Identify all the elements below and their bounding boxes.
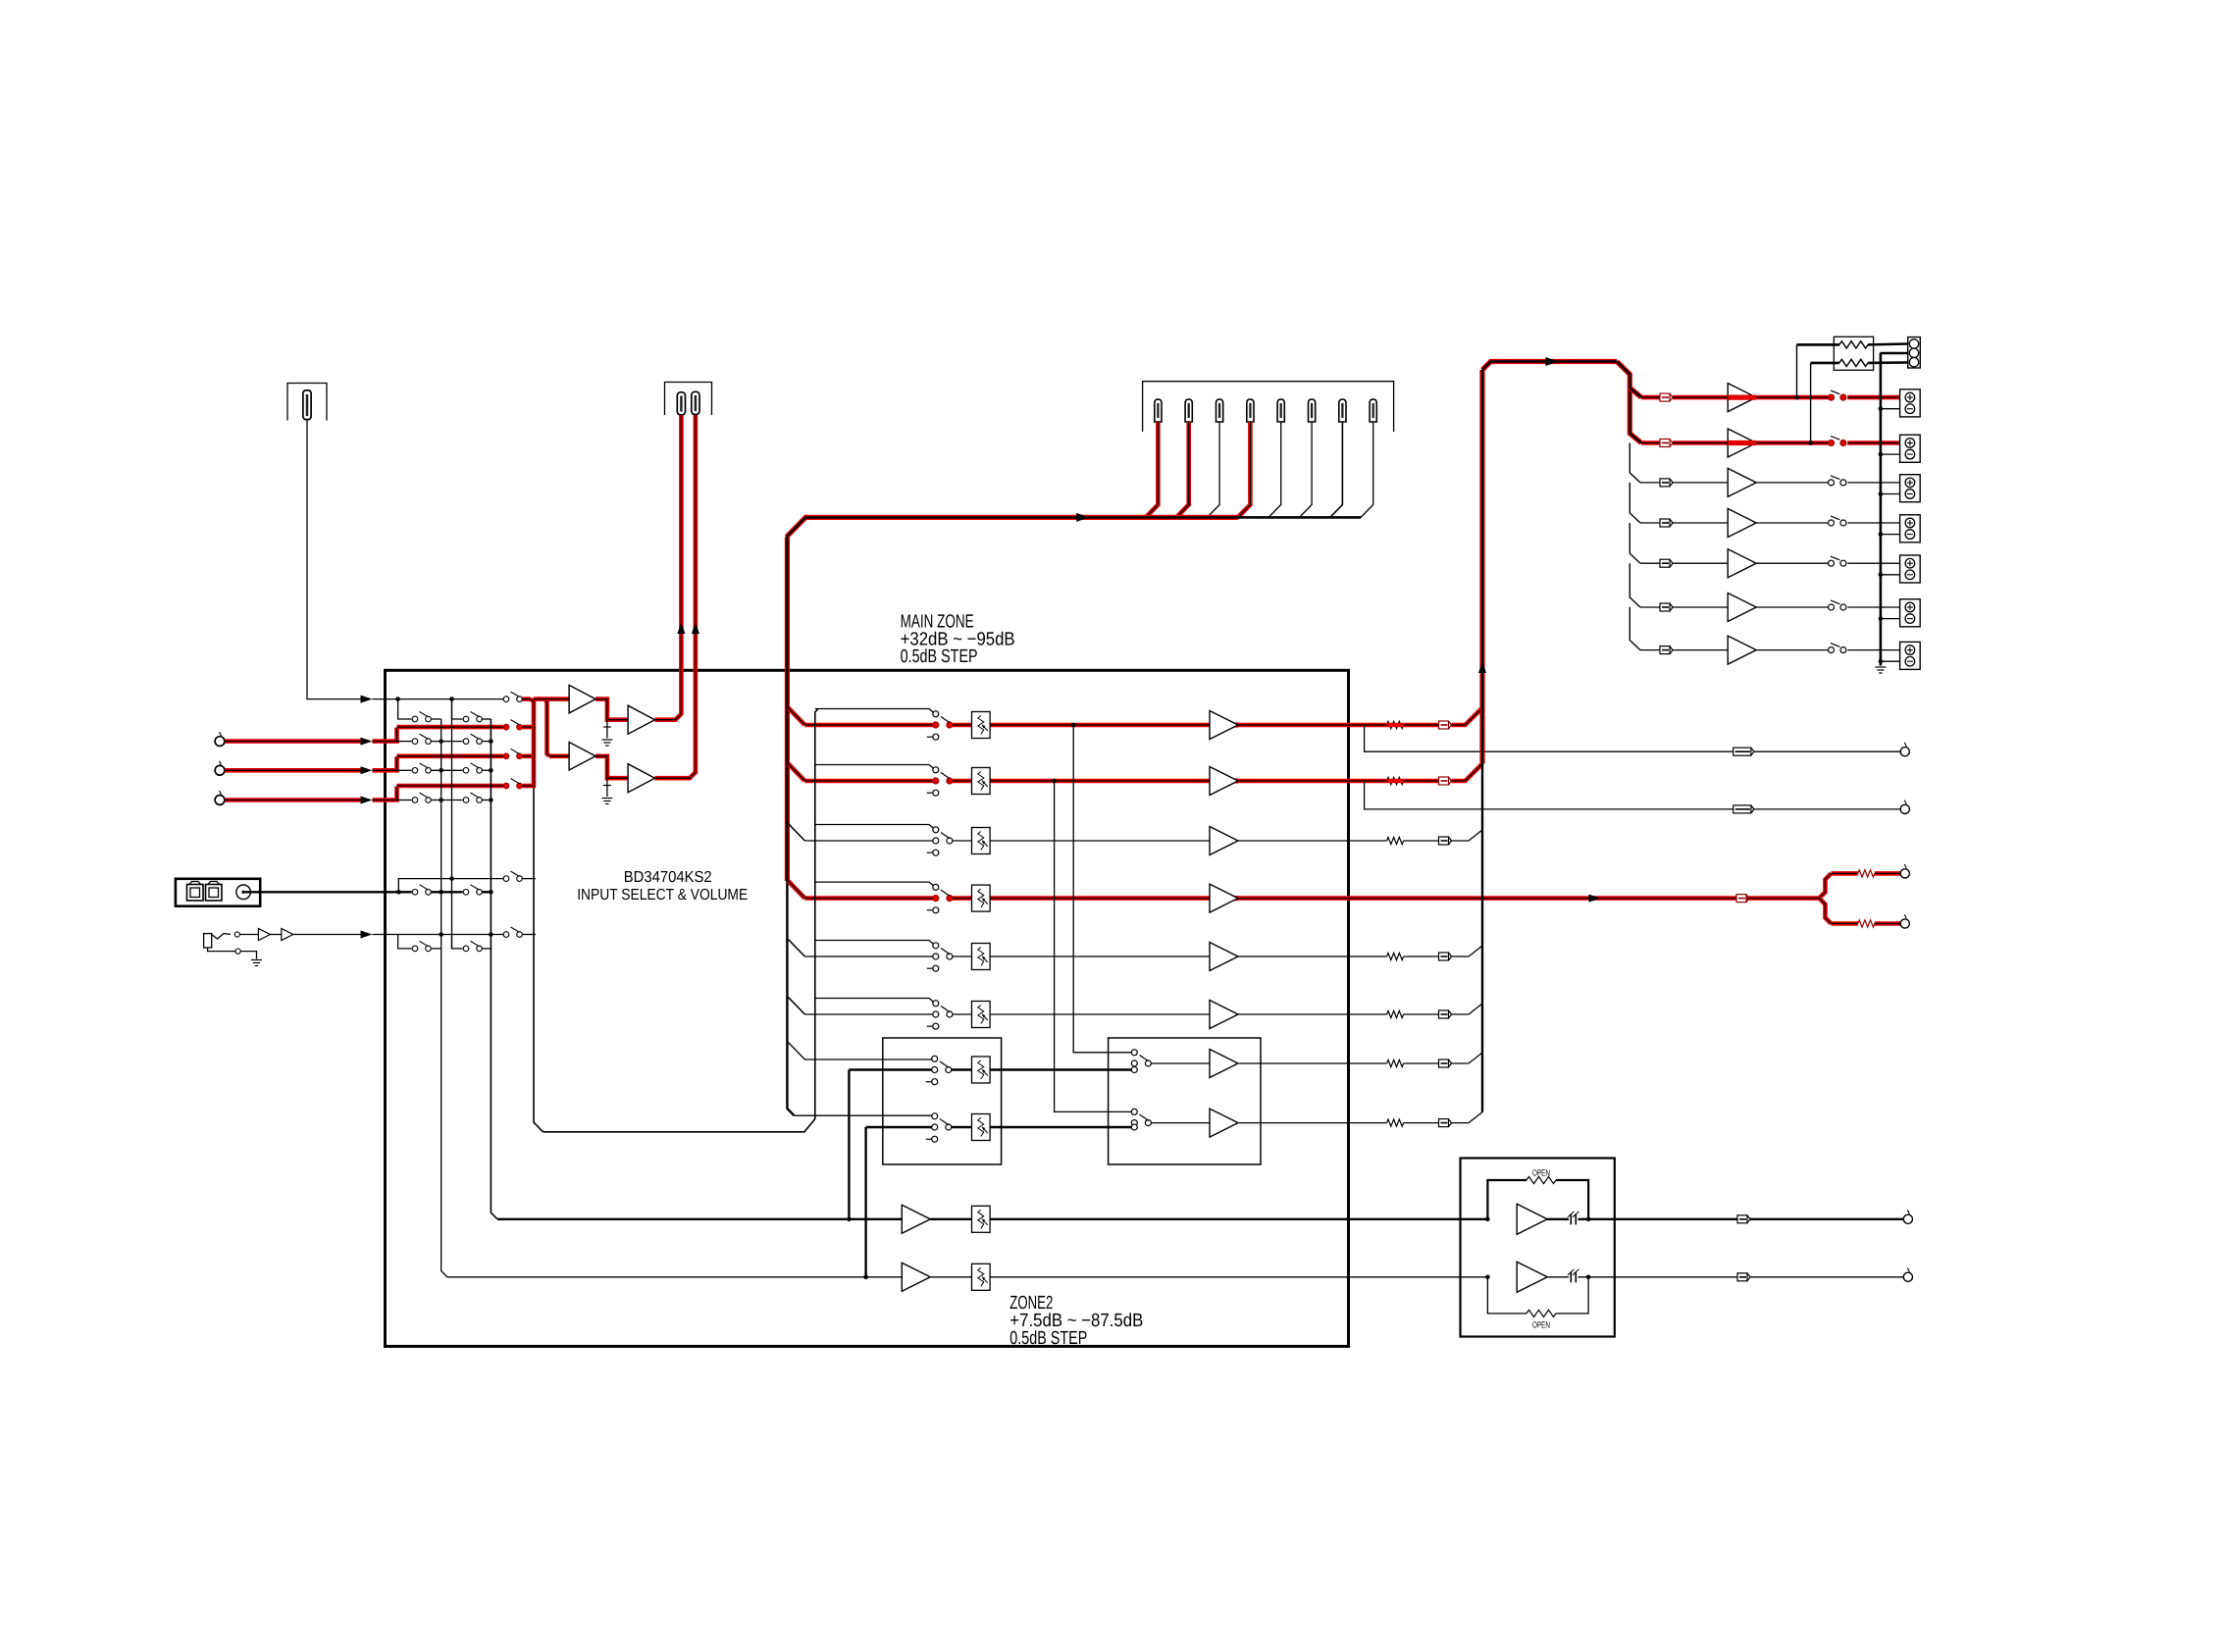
col3 output bus to chip bottom — [534, 786, 543, 1132]
connector pin flag dsp ch5 — [1277, 399, 1284, 422]
node row FR zone tap — [1052, 779, 1057, 784]
wire row SL switch to volume box — [953, 955, 972, 957]
wire bus B to buffer R — [549, 753, 569, 758]
speaker terminal 5 — [1900, 555, 1921, 583]
wire spk branch 6 d — [1847, 606, 1899, 608]
wire row FL volume to amp — [990, 723, 1210, 728]
net flag preout FR — [1733, 805, 1754, 813]
wire row SL amp to box edge — [1238, 955, 1349, 957]
SW2 output jack — [1900, 914, 1909, 928]
wire spk branch 1 d — [1847, 395, 1899, 400]
bus A red segment — [531, 699, 534, 786]
switch rca 3 col1 — [412, 793, 431, 802]
node gnd bus 6 — [1879, 616, 1884, 621]
op-amp speaker 6 — [1728, 594, 1756, 622]
op-amp zone2 Z2R — [1210, 1109, 1238, 1137]
op-amp speaker 3 — [1728, 468, 1756, 496]
node gnd bus 5 — [1879, 573, 1884, 578]
switch rca 1 col1 — [412, 734, 431, 744]
node rca 1 bus1 — [439, 739, 443, 744]
node gnd bus 2 — [1879, 452, 1884, 457]
node res bot tap — [1808, 440, 1813, 445]
input row tuner drop col2 — [452, 699, 463, 719]
wire Z2R out amp to cap — [1547, 1276, 1569, 1278]
wire SW2 to jack — [1875, 921, 1900, 926]
wire row FR volume to amp — [990, 779, 1210, 784]
top bus wire dsp to volume trunk (red part) — [787, 517, 1238, 537]
speaker terminal 1 — [1900, 389, 1921, 417]
wire dsp ch2 to volume bus — [1176, 422, 1189, 518]
node tuner drop1 — [395, 697, 400, 701]
optical input icon — [187, 882, 204, 902]
wire row SW switch to volume box — [953, 896, 972, 901]
connector pin flag dsp ch6 — [1309, 399, 1316, 422]
net flag Z2R out — [1737, 1273, 1750, 1281]
net flag SR — [1439, 1010, 1452, 1018]
wire row C switch to volume box — [953, 840, 972, 842]
direct path bus vertical — [543, 709, 819, 1132]
wire dsp ch1 to volume bus — [1145, 422, 1158, 518]
wire zone2 out Z2L to amp — [1151, 1062, 1210, 1064]
rca input jack 3 — [215, 791, 225, 804]
headphone jack — [204, 934, 212, 948]
wire phones drop col1 — [398, 935, 412, 949]
svg-text:OPEN: OPEN — [1532, 1168, 1550, 1178]
wire Z2L out cap out — [1578, 1218, 1615, 1220]
volume attenuator row FL — [972, 712, 991, 739]
wire spk branch 5 a — [1640, 562, 1660, 564]
switch phones col2 — [463, 941, 482, 951]
arrow on top bus — [1076, 513, 1089, 522]
switch rca 2 col2 — [463, 763, 482, 773]
wire rca 1 col3 to bus A — [523, 725, 537, 730]
wire row FL through amp — [1210, 722, 1238, 727]
switch zone2 Z2L — [926, 1056, 952, 1084]
volume attenuator row FR — [972, 768, 991, 795]
wire zone2 L down — [848, 1070, 850, 1219]
wire row SBR to resistor — [1261, 1122, 1387, 1124]
wire flag C to trunk — [1452, 830, 1483, 841]
wire FR to zone2 select — [1055, 781, 1131, 1111]
wire resistor to flag C — [1404, 840, 1439, 842]
net flag C — [1439, 837, 1452, 845]
wire terminal minus 4 — [1881, 534, 1900, 536]
svg-text:BD34704KS2: BD34704KS2 — [624, 869, 712, 886]
op-amp buffer L2 — [628, 705, 654, 734]
wire dsp ch4 to volume bus — [1237, 422, 1250, 518]
node module raised — [449, 876, 454, 881]
red through amp 2 — [1728, 440, 1756, 445]
wire row SL trunk to switch — [804, 955, 932, 957]
volume attenuator row SW — [972, 885, 991, 911]
switch phones col3 — [503, 927, 522, 937]
connector pin flag dsp ch4 — [1247, 399, 1254, 422]
wire terminal minus 1 — [1881, 408, 1900, 410]
resistor row C — [1387, 837, 1404, 844]
wire res top left — [1797, 343, 1840, 346]
wire row C trunk to switch — [804, 840, 932, 842]
wire spk trunk segment 3 — [1630, 483, 1640, 523]
wire zone2 Z2L out row to amp — [497, 1218, 902, 1220]
resistor OPEN Z2L out — [1526, 1176, 1556, 1183]
connector pin flag AIN L — [677, 392, 685, 415]
wire dsp ch6 to volume bus — [1299, 422, 1312, 518]
wire spk branch 2 b — [1673, 440, 1728, 445]
wire spk branch 1 a — [1641, 395, 1660, 400]
wire row SL volume to amp — [990, 955, 1210, 957]
wire flag SBR to trunk — [1452, 1112, 1483, 1123]
op-amp speaker 7 — [1728, 636, 1756, 664]
switch zone2 out Z2L — [1131, 1050, 1151, 1073]
resistor row SBR — [1387, 1119, 1404, 1126]
zone2 output jack Z2L out — [1903, 1211, 1912, 1224]
switch rca 1 col3 — [503, 720, 522, 730]
wire dsp ch7 to volume bus — [1329, 422, 1342, 518]
wire spk trunk segment 2 — [1630, 443, 1640, 483]
node phones bus1 — [439, 932, 443, 937]
wire flag SR to trunk — [1452, 1004, 1483, 1014]
wire SW split — [1820, 873, 1832, 898]
wire SW preout line — [1349, 896, 1822, 901]
net flag spk 2 — [1660, 439, 1673, 447]
net flag spk 6 — [1660, 603, 1673, 611]
preout jack FR — [1900, 800, 1909, 814]
wire Z2L out vol to open box — [990, 1218, 1487, 1220]
wire term3 mid to gnd bus — [1881, 352, 1908, 355]
resistor OPEN Z2R out — [1526, 1310, 1556, 1316]
wire rca 1 to box — [225, 739, 361, 744]
red overlay resistor FR — [1387, 779, 1404, 784]
switch zone2 out Z2R — [1131, 1109, 1151, 1130]
wire spk branch 2 d — [1847, 440, 1899, 445]
wire buffer R out up — [655, 415, 696, 778]
op-amp Z2R out final — [1517, 1262, 1547, 1292]
switch phones col1 — [412, 941, 431, 951]
wire trunk kink to row 5 — [788, 940, 804, 957]
connector pin flag dsp ch7 — [1339, 399, 1346, 422]
wire spk trunk segment 6 — [1630, 607, 1640, 650]
wire buffer R interstage — [595, 756, 628, 778]
bus B red segment — [544, 699, 549, 756]
net flag SBL — [1439, 1059, 1452, 1067]
wire row SR trunk to switch — [804, 1013, 932, 1015]
arrow rca 1 into box — [361, 738, 373, 746]
wire Z2L out amp to cap — [1547, 1218, 1569, 1220]
switch module col2 — [463, 885, 482, 895]
wire direct feed to row FL switch — [815, 709, 934, 713]
op-amp buffer row SL — [1210, 943, 1238, 971]
op-amp zone2 Z2L — [1210, 1050, 1238, 1078]
wire rca 3 col3 to bus A — [523, 784, 537, 789]
wire jack to buffer — [239, 934, 258, 936]
wire preout FR to jack — [1754, 808, 1900, 810]
node Z2R out loop in — [1485, 1275, 1490, 1280]
wire row SR switch to volume box — [953, 1013, 972, 1015]
wire zone2 out Z2R to amp — [1151, 1122, 1210, 1124]
switch zone2 Z2R — [926, 1113, 952, 1142]
resistor row FL — [1387, 721, 1404, 728]
switch volume row SL — [927, 943, 953, 971]
interstage cap L — [606, 720, 608, 739]
volume attenuator Z2R out — [972, 1264, 991, 1290]
arrow rca 3 into box — [361, 797, 373, 804]
wire zone2 Z2R vol out — [990, 1126, 1131, 1128]
buffer amp phones 2 — [282, 929, 293, 941]
wire terminal minus 7 — [1881, 660, 1900, 662]
wire flag SBL to trunk — [1452, 1053, 1483, 1063]
wire phones col2 to bus — [483, 948, 492, 950]
wire row FR to resistor — [1349, 779, 1387, 784]
wire module raised branch — [398, 879, 503, 893]
node rca 3 bus1 — [439, 798, 443, 802]
zone2 select volume box — [883, 1038, 1002, 1164]
wire phones buffer link — [270, 934, 281, 936]
wire row FL amp to box edge — [1238, 723, 1349, 728]
volume trunk vertical (black part) — [787, 881, 794, 1115]
wire phones col3 out — [523, 934, 537, 936]
wire zone2 Z2L sw to vol — [952, 1068, 972, 1070]
wire spk branch 6 a — [1640, 606, 1660, 608]
switch tuner col3 — [503, 692, 522, 701]
svg-text:0.5dB STEP: 0.5dB STEP — [1009, 1328, 1087, 1349]
bracket connector CN zone — [665, 383, 712, 416]
buffer amp phones 1 — [258, 929, 270, 941]
wire spk branch 3 c — [1756, 482, 1828, 484]
wire resistor to flag SR — [1404, 1013, 1439, 1015]
speaker terminal 2 — [1900, 435, 1921, 462]
node module bus2 — [489, 890, 493, 895]
wire spk branch 5 c — [1756, 562, 1828, 564]
speaker ground bus — [1880, 353, 1883, 666]
wire spk branch 3 b — [1673, 482, 1728, 484]
connector pin flag dsp ch1 — [1155, 399, 1162, 422]
node rca 1 bus2 — [489, 739, 493, 744]
switch tuner col2 — [463, 712, 482, 722]
wire Z2R out to flag — [1615, 1276, 1737, 1278]
node tuner drop2 — [449, 697, 454, 701]
wire FL to zone2 select — [1073, 725, 1131, 1053]
connector pin flag AIN R — [692, 391, 699, 414]
wire zone2 R down — [864, 1127, 866, 1277]
volume attenuator Z2L out — [972, 1206, 991, 1232]
bracket connector CN dsp outputs — [1143, 382, 1394, 432]
net flag spk 5 — [1660, 559, 1673, 567]
net flag SW — [1736, 895, 1749, 903]
wire tuner into box — [373, 698, 398, 700]
wire row FR switch to volume box — [953, 779, 972, 784]
wire bus A to buffer L — [534, 697, 569, 701]
switch tuner col1 — [412, 712, 431, 722]
wire preout FL to jack — [1754, 750, 1900, 752]
switch volume row C — [927, 827, 953, 855]
wire res top tap — [1796, 344, 1798, 397]
op-amp buffer row C — [1210, 827, 1238, 855]
wire rca 3 col1 to col2 — [432, 800, 463, 801]
op-amp speaker 1 — [1728, 384, 1756, 412]
wire trunk kink to row 2 — [788, 764, 804, 782]
wire SW1 to jack — [1875, 871, 1900, 876]
wire spk branch 1 b — [1673, 395, 1728, 400]
impedance detect resistor box — [1834, 336, 1873, 370]
zone2 output select box — [1109, 1038, 1261, 1164]
wire row SW trunk to switch — [804, 896, 932, 901]
arrow speaker trunk — [1478, 661, 1486, 673]
wire trunk kink to zone2 select R — [795, 1114, 932, 1116]
switch module col3 — [503, 871, 522, 881]
optical input icon 2 — [206, 882, 223, 902]
cap plate R — [603, 785, 611, 787]
switch volume row SW — [927, 884, 953, 912]
wire SW down branch — [1832, 921, 1858, 926]
wire module to box — [245, 891, 398, 893]
volume attenuator row SR — [972, 1002, 991, 1028]
arrow buffer R out — [692, 622, 699, 634]
top bus wire (black part) — [1238, 516, 1361, 519]
digital module box — [176, 879, 260, 906]
wire row SL to resistor — [1349, 955, 1387, 957]
wire flag FL to trunk — [1452, 708, 1483, 726]
wire spk branch 4 b — [1673, 522, 1728, 524]
op-amp buffer L1 — [569, 685, 595, 713]
bracket connector CN tuner — [287, 384, 327, 421]
wire jack sleeve — [208, 948, 235, 952]
wire spk branch 4 a — [1640, 522, 1660, 524]
wire phones drop col2 — [452, 935, 463, 949]
wire spk branch 3 a — [1640, 482, 1660, 484]
interstage cap R — [606, 778, 608, 797]
resistor detect top — [1839, 341, 1868, 348]
wire spk branch FL chamfer — [1630, 387, 1641, 397]
wire resistor to flag SL — [1404, 955, 1439, 957]
rca input jack 2 — [215, 761, 225, 775]
node zone2 L join — [847, 1217, 852, 1222]
net flag spk 1 — [1660, 393, 1673, 401]
matrix bus col1 — [441, 719, 448, 1277]
connector pin flag TU — [303, 390, 311, 420]
wire row C amp to box edge — [1238, 840, 1349, 842]
wire row FL trunk to switch — [804, 723, 932, 728]
wire raised branch rca 3 — [397, 784, 504, 789]
impedance terminal 3pin — [1908, 337, 1921, 368]
wire trunk kink to row 3 — [788, 824, 804, 842]
net flag spk 7 — [1660, 646, 1673, 654]
ground buffer R — [601, 799, 612, 804]
svg-text:OPEN: OPEN — [1532, 1320, 1550, 1330]
wire zone2 out Z2L amp out — [1239, 1062, 1261, 1064]
node Z2R out loop out — [1586, 1275, 1591, 1280]
wire phones to box — [293, 934, 361, 936]
feedback loop Z2R out — [1487, 1277, 1526, 1314]
node rca 3 bus2 — [489, 798, 493, 802]
node gnd bus 7 — [1879, 659, 1884, 664]
svg-text:0.5dB STEP: 0.5dB STEP — [901, 646, 978, 667]
zone2 output jack Z2R out — [1903, 1268, 1912, 1282]
wire SW split lower — [1820, 899, 1832, 924]
input row tuner col1 to bus — [432, 718, 441, 720]
wire spk branch 6 c — [1756, 606, 1828, 608]
switch rca 1 col2 — [463, 734, 482, 744]
net flag Z2L out — [1737, 1215, 1750, 1223]
wire zone2 Z2R out row to amp — [447, 1276, 902, 1278]
speaker terminal 6 — [1900, 599, 1921, 627]
wire dsp ch5 to volume bus — [1268, 422, 1281, 518]
arrow tuner into box — [361, 696, 373, 703]
node module bus1 — [439, 890, 443, 895]
wire row FR amp to box edge — [1238, 779, 1349, 784]
net flag spk 4 — [1660, 519, 1673, 527]
wire rca 3 into matrix — [373, 787, 397, 800]
muting switch spk 3 — [1829, 476, 1846, 486]
capacitor Z2L out — [1568, 1212, 1579, 1225]
wire spk branch 2 a — [1641, 440, 1660, 445]
feedback loop Z2R out b — [1556, 1277, 1588, 1314]
wire spk branch 3 d — [1847, 482, 1899, 484]
node rca 2 bus2 — [489, 768, 493, 773]
wire rca 1 row to col1 — [397, 741, 412, 743]
input row tuner to col3 switch — [398, 698, 503, 700]
red overlay resistor FL — [1387, 723, 1404, 728]
wire spk branch 5 b — [1673, 562, 1728, 564]
wire row SW through amp — [1210, 896, 1238, 901]
arrow buffer L out — [677, 622, 685, 634]
wire raised branch rca 1 — [397, 725, 504, 730]
wire trunk kink to zone2 select L — [788, 1043, 931, 1060]
wire zone2 Z2R row — [866, 1126, 932, 1128]
resistor row FR — [1387, 777, 1404, 784]
speaker bus step down — [1617, 362, 1641, 443]
main board outer box — [386, 670, 1349, 1346]
switch rca 3 col3 — [503, 779, 522, 789]
feedback loop Z2L out — [1487, 1180, 1526, 1219]
wire spk branch 6 b — [1673, 606, 1728, 608]
muting switch spk 2 — [1829, 437, 1846, 446]
wire trunk kink to row 4 — [788, 881, 804, 899]
wire row SW amp to box edge — [1238, 896, 1349, 901]
wire direct feed to row SW switch — [815, 882, 934, 886]
op-amp buffer R2 — [628, 764, 654, 793]
volume attenuator zone2 Z2L — [972, 1057, 991, 1083]
op-amp buffer row FR — [1210, 767, 1238, 796]
wire zone2 Z2L row — [849, 1068, 931, 1070]
wire row FR trunk to switch — [804, 779, 932, 784]
arrow SW line — [1589, 895, 1601, 903]
SW1 output jack — [1900, 864, 1909, 878]
wire rca 2 col1 to col2 — [432, 769, 463, 771]
wire row FR through amp — [1210, 778, 1238, 783]
wire terminal minus 3 — [1881, 493, 1900, 495]
wire Z2L out to flag — [1615, 1218, 1737, 1220]
arrow phones into box — [361, 931, 373, 939]
wire res bot left — [1811, 362, 1839, 365]
wire res bot right — [1868, 361, 1908, 364]
speaker trunk vertical (black) — [1481, 764, 1483, 1112]
jack sleeve contact — [235, 949, 240, 954]
node gnd bus 3 — [1879, 491, 1884, 496]
wire rca 1 col2 out — [483, 741, 492, 743]
wire row SR amp to box edge — [1238, 1013, 1349, 1015]
wire rca 3 to box — [225, 798, 361, 802]
wire rca 3 col2 out — [483, 800, 492, 801]
resistor SW2 — [1858, 920, 1875, 927]
wire rca 2 to box — [225, 768, 361, 773]
connector pin flag dsp ch8 — [1370, 399, 1376, 422]
wire spk branch 7 b — [1673, 649, 1728, 651]
muting switch spk 5 — [1829, 556, 1846, 566]
node zone2 R join — [863, 1275, 868, 1280]
op-amp buffer R1 — [569, 743, 595, 771]
muting switch spk 4 — [1829, 516, 1846, 526]
wire res bot tap — [1810, 363, 1812, 443]
